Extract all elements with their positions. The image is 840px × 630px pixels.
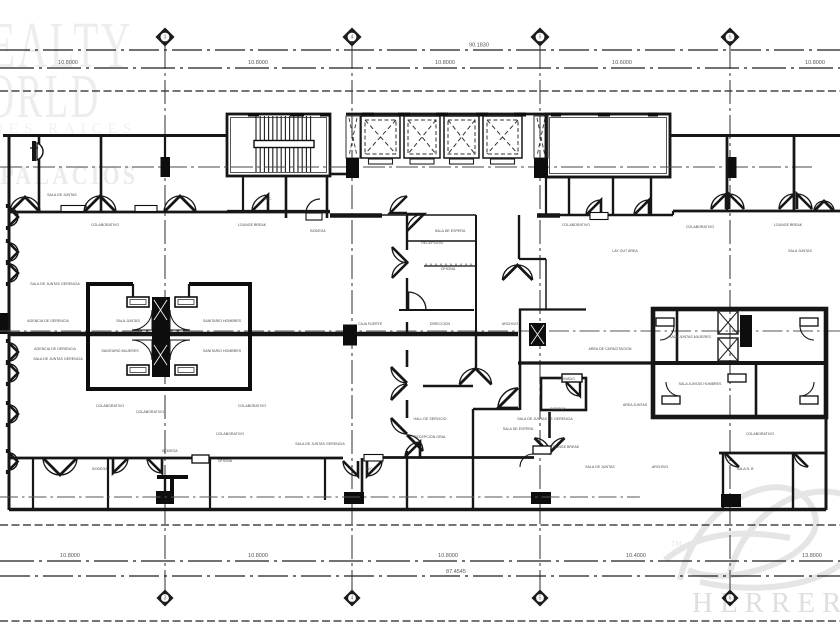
svg-text:OFICINA: OFICINA — [441, 267, 456, 271]
exterior door arc (left wall) — [9, 208, 18, 226]
door fixture NE — [800, 318, 818, 326]
svg-text:10.4000: 10.4000 — [626, 553, 646, 559]
svg-text:ARCHIVO: ARCHIVO — [652, 465, 669, 469]
svg-text:AGENCIA DE GERENCIA: AGENCIA DE GERENCIA — [27, 319, 69, 323]
elevator left shaft (dashed) — [346, 116, 360, 158]
reception wall vertical — [406, 215, 408, 250]
elevator 2 counterweight — [410, 159, 434, 164]
door leaf on partition — [37, 143, 43, 160]
right corridor partition (grid4) — [726, 136, 729, 210]
centre vertical wall at x520 — [519, 309, 521, 363]
stair enclosure — [227, 114, 330, 176]
svg-text:HALL DE SERVICIO: HALL DE SERVICIO — [414, 417, 447, 421]
partition wall (grid1) — [164, 136, 166, 157]
door arc on x407 lower2 — [391, 418, 407, 434]
bottom rooms north wall (mid run) — [382, 456, 534, 459]
door pair on corridor wall — [84, 196, 100, 212]
dimension line top (bays) — [0, 67, 840, 69]
svg-text:BODEGA: BODEGA — [550, 407, 566, 411]
door arc bottom-right inner — [725, 453, 739, 467]
office room west of grid3 — [399, 309, 474, 311]
right suite mid wall — [653, 361, 826, 365]
grid marker 4 top — [722, 29, 739, 46]
corridor south wall (right run) — [673, 210, 840, 213]
exterior door arc (left wall) — [9, 264, 18, 282]
door fixture near grid1 — [192, 455, 209, 463]
svg-text:87.4545: 87.4545 — [446, 569, 466, 575]
svg-text:SANITARIO HOMBRES: SANITARIO HOMBRES — [203, 319, 242, 323]
column grid4 bottom — [721, 494, 741, 507]
corridor south wall (middle run) — [330, 213, 382, 218]
svg-text:COLABORATIVO: COLABORATIVO — [562, 223, 590, 227]
door fixture SW — [662, 396, 680, 404]
svg-text:SANITARIO MUJERES: SANITARIO MUJERES — [101, 349, 139, 353]
partitions below machine room — [568, 177, 570, 214]
elevator car 3 — [444, 116, 479, 158]
big door arc centre-bottom — [498, 388, 518, 408]
under-stair partition a — [242, 176, 244, 211]
grid marker 2 bottom — [345, 591, 360, 606]
grid marker 2 top — [344, 29, 361, 46]
right corridor partition — [793, 136, 796, 210]
door arc office (swings up-right) — [408, 292, 426, 310]
right suite partition NW — [676, 309, 679, 363]
svg-text:SALA JUNTAS MUJERES: SALA JUNTAS MUJERES — [669, 335, 711, 339]
grid marker 3 bottom — [533, 591, 548, 606]
door pair near right end of corridor — [814, 201, 824, 211]
sanitary door fans — [132, 310, 152, 330]
svg-text:W.C.: W.C. — [264, 197, 272, 201]
column grid3 mid (with X) — [529, 323, 546, 346]
under-stair partition b — [285, 176, 288, 218]
svg-text:ARCHIVO: ARCHIVO — [502, 322, 519, 326]
column at grid 4 / corridor — [726, 157, 737, 178]
corridor south wall (left run) — [9, 211, 330, 214]
grid line 4 (vertical) — [729, 45, 731, 591]
T wall at grid1 — [157, 477, 188, 491]
svg-text:OFICINA: OFICINA — [218, 459, 233, 463]
svg-text:DIRECCION: DIRECCION — [430, 322, 451, 326]
mid reference dash-dot line — [0, 330, 840, 332]
svg-text:SALA DE JUNTAS GERENCIA: SALA DE JUNTAS GERENCIA — [30, 282, 80, 286]
svg-text:SALA DE JUNTAS: SALA DE JUNTAS — [47, 193, 77, 197]
svg-text:RECEPCION GRAL: RECEPCION GRAL — [414, 435, 446, 439]
door fixture grid3 bottom — [533, 446, 551, 454]
door pair on corridor wall — [10, 197, 25, 212]
vertical wall x519 upper — [518, 215, 520, 259]
partition wall — [100, 136, 103, 211]
wall x520 below centre — [519, 363, 522, 410]
door in bay 613-651 — [634, 200, 649, 215]
svg-text:COLABORATIVO: COLABORATIVO — [91, 223, 119, 227]
stair landing wall extension — [330, 173, 346, 176]
door arc above wall at x407 — [405, 442, 420, 457]
svg-text:SALA DE JUNTAS GERENCIA: SALA DE JUNTAS GERENCIA — [295, 442, 345, 446]
reception north wall — [360, 214, 407, 216]
threshold fixture below bay door — [590, 213, 608, 220]
vertical wall x473 lower — [472, 409, 474, 509]
svg-text:LOUNGE BREAK: LOUNGE BREAK — [774, 223, 803, 227]
exterior door arc (left wall) — [9, 364, 18, 382]
svg-text:SALA JUNTAS: SALA JUNTAS — [788, 249, 812, 253]
bottom rooms north wall (left run) — [9, 457, 343, 460]
svg-text:10.8000: 10.8000 — [435, 60, 455, 66]
svg-text:TM: TM — [671, 540, 682, 548]
watermark PALACIOS — [0, 162, 138, 190]
dimension line top (overall) — [0, 49, 840, 51]
svg-text:4: 4 — [351, 35, 354, 41]
svg-text:SALA N. B: SALA N. B — [737, 467, 755, 471]
grid line 3 (vertical) — [539, 45, 541, 591]
bottom partition grid1 with column — [164, 477, 166, 503]
right suite black core — [740, 315, 752, 347]
watermark signature swirl (bottom-right) — [665, 487, 840, 587]
room labels (tiny grey text) — [27, 193, 812, 471]
door pair on corridor wall — [164, 196, 180, 212]
svg-text:PRIVADO: PRIVADO — [559, 377, 575, 381]
wall y409 centre — [473, 408, 520, 410]
wall x476 mid-lower segment — [475, 336, 477, 368]
sanitary core centre shaft — [152, 297, 170, 377]
svg-text:SALA JUNTAS: SALA JUNTAS — [116, 319, 140, 323]
svg-text:COLABORATIVO: COLABORATIVO — [746, 432, 774, 436]
column at grid 2 / corridor — [346, 158, 359, 178]
svg-text:5: 5 — [539, 35, 542, 41]
exterior door arc (left wall) — [9, 243, 18, 261]
small room below grid3 — [541, 378, 586, 410]
under-stair partition c — [326, 176, 329, 218]
bottom dimension line 2 (overall) — [0, 575, 840, 577]
right suite shaft with X (lower) — [718, 338, 738, 361]
south exterior wall — [9, 508, 826, 511]
elevator 3 counterweight — [450, 159, 474, 164]
sanitary core block (thick walls) — [88, 284, 250, 389]
svg-text:SALA DE ESPERA: SALA DE ESPERA — [435, 229, 466, 233]
sanitary fixtures top row — [127, 297, 149, 307]
machine room (double wall rectangle) — [546, 114, 670, 177]
svg-text:COLABORATIVO: COLABORATIVO — [686, 225, 714, 229]
svg-text:SALA DE JUNTAS DE GERENCIA: SALA DE JUNTAS DE GERENCIA — [517, 417, 573, 421]
svg-text:BODEGA: BODEGA — [310, 229, 326, 233]
svg-text:COLABORATIVO: COLABORATIVO — [238, 404, 266, 408]
bottom partition x362 — [361, 458, 364, 504]
svg-text:BODEGA: BODEGA — [92, 467, 108, 471]
exterior door arc (left wall) — [9, 453, 18, 470]
column at left end of mid wall — [0, 313, 8, 334]
svg-text:13.8000: 13.8000 — [802, 553, 822, 559]
svg-text:6: 6 — [729, 35, 732, 41]
door fan in small room — [566, 382, 580, 396]
grid line 1 (vertical) — [164, 45, 166, 591]
stair handrail — [254, 141, 314, 148]
double swing door on wall x407 (lower) — [391, 367, 407, 383]
door pair bottom rooms — [43, 458, 60, 475]
wall y363 centre-right — [518, 361, 653, 364]
bottom right room partitions — [722, 453, 724, 509]
right suite outer wall — [653, 309, 826, 417]
column grid2 mid — [343, 325, 357, 346]
butterfly door at grid3 down — [548, 412, 551, 438]
doors flanking partition x795 — [779, 194, 794, 209]
svg-text:COLABORATIVO: COLABORATIVO — [216, 432, 244, 436]
elevator car 2 — [404, 116, 440, 158]
svg-text:3: 3 — [164, 596, 167, 602]
office divider wall — [407, 240, 476, 242]
main mid wall (left half, thick) — [8, 332, 518, 337]
threshold fixture on corridor wall — [61, 206, 86, 212]
svg-text:10.8000: 10.8000 — [248, 553, 268, 559]
svg-text:3: 3 — [164, 35, 167, 41]
grid marker 4 bottom — [723, 591, 738, 606]
svg-text:W.C.: W.C. — [366, 467, 374, 471]
sanitary fixtures bottom row — [127, 365, 149, 375]
door under stair room b — [306, 199, 320, 213]
elevator car 4 — [483, 116, 522, 158]
svg-text:CAJA FUERTE: CAJA FUERTE — [358, 322, 383, 326]
stair door jambs on top wall — [248, 113, 259, 117]
bottom rooms north wall (right run) — [719, 452, 826, 455]
svg-text:RECEPCION: RECEPCION — [421, 241, 443, 245]
door right room — [794, 453, 808, 467]
watermark WORLD — [0, 63, 101, 132]
south corridor wall below machine room — [546, 214, 673, 217]
elevator bank top wall — [346, 113, 549, 116]
svg-text:10.8000: 10.8000 — [805, 60, 825, 66]
column at grid 3 / corridor — [534, 158, 548, 178]
svg-text:SALA DE JUNTAS GERENCIA: SALA DE JUNTAS GERENCIA — [33, 357, 83, 361]
right suite partition S — [755, 363, 758, 417]
south reference dashed line — [0, 524, 840, 526]
svg-text:LAY OUT AREA: LAY OUT AREA — [612, 249, 638, 253]
right exterior wall — [825, 417, 828, 510]
door bottom right of partition x108 — [113, 458, 128, 473]
door at recess right — [367, 461, 382, 476]
svg-text:4: 4 — [351, 596, 354, 602]
butterfly door below wall y259 — [503, 265, 518, 280]
svg-text:HERRERA: HERRERA — [692, 587, 840, 619]
grid marker 3 top — [532, 29, 549, 46]
svg-text:SALA DE JUNTAS: SALA DE JUNTAS — [585, 465, 615, 469]
bottom partition x407 — [406, 458, 408, 509]
exterior door arc (left wall) — [9, 343, 18, 361]
door fixture centre — [728, 374, 746, 382]
bottom dimension line 1 — [0, 560, 840, 562]
elevator right shaft (dashed) — [534, 116, 548, 158]
door fixture SE — [800, 396, 818, 404]
grid marker 1 top — [157, 29, 174, 46]
stair treads — [256, 116, 311, 172]
threshold fixture at recess — [364, 455, 383, 462]
svg-text:6: 6 — [729, 596, 732, 602]
svg-text:10.8000: 10.8000 — [438, 553, 458, 559]
bottom partitions — [32, 458, 34, 509]
butterfly door at x475 up — [460, 369, 476, 385]
svg-text:COLABORATIVO: COLABORATIVO — [96, 404, 124, 408]
threshold fixture on corridor wall 2 — [135, 206, 157, 212]
corridor centre dash-dot line — [0, 166, 812, 168]
wall y259 — [519, 258, 546, 260]
door at recess left — [343, 461, 358, 476]
svg-text:10.8000: 10.8000 — [248, 60, 268, 66]
office divider wall 2 — [424, 265, 476, 267]
sanitary top small walls — [132, 284, 134, 297]
svg-text:COLABORATIVO: COLABORATIVO — [136, 410, 164, 414]
column at grid 1 / corridor — [161, 157, 171, 177]
door fixture NW — [656, 318, 674, 326]
svg-text:5: 5 — [539, 596, 542, 602]
bottom reference dashed line — [0, 620, 840, 622]
svg-text:90.1830: 90.1830 — [469, 43, 489, 49]
centre bottom room walls — [406, 350, 409, 367]
column grid3 bottom — [531, 492, 551, 504]
reference dash-dot through south rooms — [0, 496, 640, 498]
exterior door arc (left wall) — [9, 405, 18, 423]
top exterior wall (left segment) — [3, 134, 227, 137]
svg-text:SALA DE ESPERA: SALA DE ESPERA — [503, 427, 534, 431]
svg-text:LOUNGE BREAK: LOUNGE BREAK — [551, 445, 580, 449]
svg-text:10.8000: 10.8000 — [58, 60, 78, 66]
reference dashed line top — [0, 90, 840, 92]
svg-text:10.8000: 10.8000 — [60, 553, 80, 559]
svg-text:SALA JUNTAS HOMBRES: SALA JUNTAS HOMBRES — [679, 382, 722, 386]
svg-text:10.6000: 10.6000 — [612, 60, 632, 66]
right suite shaft with X (upper) — [718, 311, 738, 334]
svg-text:AREA JUNTAS: AREA JUNTAS — [623, 403, 648, 407]
elevator car 1 — [361, 116, 400, 158]
svg-text:AGENCIA DE GERENCIA: AGENCIA DE GERENCIA — [34, 347, 76, 351]
elevator 4 counterweight — [491, 159, 515, 164]
elevator 1 counterweight — [369, 159, 393, 164]
svg-text:LOUNGE BREAK: LOUNGE BREAK — [238, 223, 267, 227]
door arc under stairs — [252, 195, 268, 211]
under-stair room south wall — [227, 210, 330, 212]
east wall of reception suite — [475, 215, 477, 334]
door fixture small room — [562, 374, 582, 382]
vertical wall x546 segment — [545, 259, 547, 309]
wall y386 left of butterfly — [423, 385, 473, 387]
grid line 2 (vertical) — [351, 45, 353, 591]
wall y309 right of x519 — [519, 308, 586, 310]
doors flanking partition x727 — [711, 194, 726, 209]
double swing door on reception wall — [392, 247, 408, 263]
partition wall — [38, 136, 41, 211]
watermark REALTY (top-left) — [0, 8, 133, 81]
door arc reception (up) — [407, 214, 424, 231]
grid marker 1 bottom — [158, 591, 173, 606]
top exterior wall (right segment) — [670, 134, 840, 137]
svg-text:AREA DE CAPACITACION: AREA DE CAPACITACION — [589, 347, 632, 351]
door in bay 569-613 — [586, 200, 601, 215]
svg-text:SANITARIO HOMBRES: SANITARIO HOMBRES — [203, 349, 242, 353]
svg-text:BODEGA: BODEGA — [162, 449, 178, 453]
door bottom left of grid1 column — [147, 458, 162, 473]
left exterior wall — [8, 135, 11, 510]
column grid2 bottom — [344, 492, 364, 504]
